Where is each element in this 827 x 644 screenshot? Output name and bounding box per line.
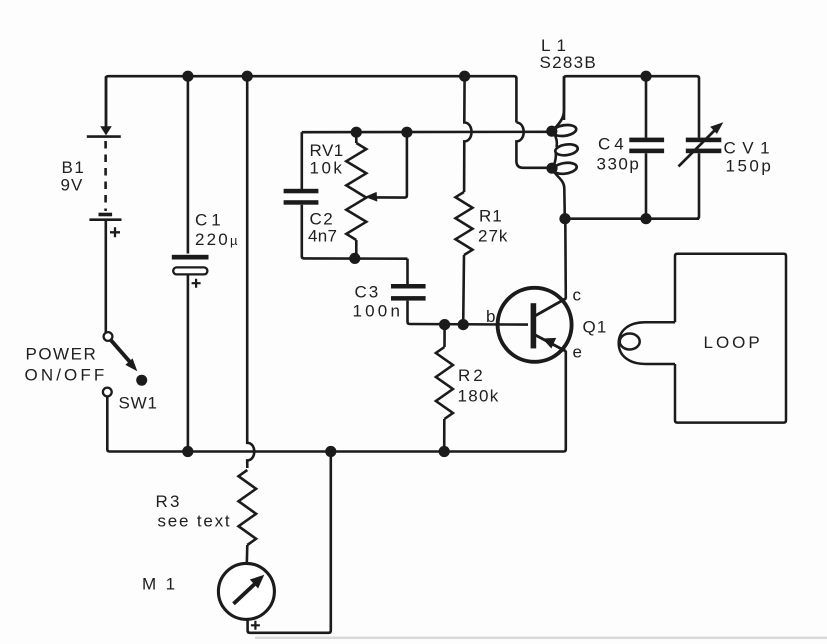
inductor L1 loop 1 — [552, 124, 577, 138]
svg-text:Q1: Q1 — [583, 318, 608, 337]
capacitor C4 bottom lead — [645, 153, 648, 219]
capacitor C2 bottom plate — [284, 200, 319, 205]
svg-text:9V: 9V — [61, 176, 84, 195]
switch SW1 upper terminal — [104, 332, 113, 341]
wire supply-to-meter vertical — [247, 76, 254, 468]
resistor R2 body — [436, 347, 453, 419]
transistor Q1 base bar — [531, 303, 537, 348]
capacitor C2 top plate — [284, 189, 319, 194]
potentiometer RV1 wiper wire — [374, 132, 407, 197]
wire meter return loop — [248, 452, 331, 633]
battery B1 plus sign — [110, 227, 120, 237]
resistor R2 bottom lead — [443, 419, 446, 452]
junction L1 top tap — [546, 126, 557, 137]
junction ground rail / C1 — [182, 446, 193, 457]
junction base wire / R1 — [458, 319, 469, 330]
svg-text:c: c — [573, 286, 582, 305]
meter M1 plus sign — [251, 621, 260, 630]
junction tap bus / wiper branch — [401, 127, 412, 138]
battery B1 top plate — [87, 135, 121, 138]
junction C2-C3 wire / RV1 bottom — [349, 253, 360, 264]
meter M1 body — [218, 563, 274, 619]
battery B1 bottom short plate — [99, 213, 113, 217]
capacitor CV1 variable arrow — [679, 131, 715, 167]
meter M1 needle arrowhead — [250, 575, 264, 589]
svg-text:CV1: CV1 — [724, 139, 777, 158]
resistor R1 top lead with hop — [464, 76, 471, 192]
junction L1 lower tap — [546, 163, 557, 174]
inductor L1 loop 3 — [553, 161, 578, 175]
wire tap bus (RV1/R1 top to L1 top tap) — [302, 131, 552, 134]
capacitor C2 bottom lead — [302, 205, 408, 259]
svg-text:C4: C4 — [598, 135, 628, 154]
resistor R1 body — [456, 192, 473, 255]
potentiometer RV1 body — [346, 143, 366, 240]
svg-text:LOOP: LOOP — [704, 333, 763, 352]
transistor Q1 collector stroke — [535, 298, 566, 316]
wire top rail right section (L1 to CV1) — [564, 76, 699, 137]
transistor Q1 emitter stroke — [535, 335, 566, 351]
resistor R3 — [239, 470, 257, 545]
wire bottom ground rail — [107, 397, 564, 452]
capacitor C3 bottom lead — [408, 301, 529, 325]
wire L1 lower tap stub — [548, 167, 556, 170]
svg-text:e: e — [573, 343, 582, 362]
junction tank bottom / C4 — [640, 213, 651, 224]
svg-text:C1: C1 — [195, 211, 225, 230]
svg-text:180k: 180k — [458, 387, 500, 406]
battery B1 top lead arrowhead — [100, 126, 112, 135]
svg-text:150p: 150p — [726, 157, 774, 176]
inductor L1 loop 2 — [555, 143, 579, 157]
inductor L1 bottom lead — [554, 172, 565, 219]
wire R3 to meter — [246, 545, 249, 564]
svg-text:R3: R3 — [156, 492, 182, 511]
capacitor CV1 bottom plate — [686, 149, 722, 154]
svg-text:10k: 10k — [310, 159, 345, 178]
junction tank bottom / collector — [559, 213, 570, 224]
svg-text:SW1: SW1 — [119, 394, 158, 413]
junction top rail / C1 — [182, 71, 193, 82]
meter M1 needle — [234, 584, 255, 604]
svg-text:100n: 100n — [353, 302, 404, 321]
capacitor C1 bottom plate (polar) — [173, 267, 207, 274]
wire rail-to-tap hop over tap wire — [516, 123, 548, 168]
wire L1 top tap stub — [548, 130, 556, 133]
resistor R2 top lead — [443, 325, 446, 347]
wire Q1 collector to tank — [564, 219, 567, 299]
junction ground rail / R2 — [439, 446, 450, 457]
junction top rail / meter branch — [242, 71, 253, 82]
inductor L1 top lead — [554, 76, 564, 129]
capacitor C1 plus sign — [192, 279, 201, 288]
junction right rail / C4 top — [640, 71, 651, 82]
junction top rail / R1 — [459, 71, 470, 82]
svg-text:RV1: RV1 — [310, 141, 344, 160]
resistor R1 bottom lead — [462, 255, 465, 325]
transistor Q1 emitter arrowhead (PNP) — [542, 338, 556, 349]
loop antenna box — [675, 254, 786, 423]
svg-text:330p: 330p — [597, 155, 641, 174]
svg-text:ON/OFF: ON/OFF — [25, 366, 108, 385]
svg-text:27k: 27k — [478, 227, 508, 246]
battery B1 bottom long plate — [89, 218, 121, 221]
inductor L1 spine 1-2 — [554, 134, 557, 148]
battery B1 bottom lead — [105, 221, 108, 332]
loop antenna coupling tab — [619, 322, 675, 364]
svg-text:4n7: 4n7 — [308, 227, 337, 246]
transistor Q1 body circle — [498, 288, 572, 362]
svg-text:M1: M1 — [142, 575, 185, 594]
svg-text:B1: B1 — [62, 158, 86, 177]
battery B1 dashed cell body — [104, 141, 107, 211]
wire tank bottom rail — [565, 217, 699, 220]
wire Q1 emitter to ground rail — [564, 351, 566, 452]
capacitor C4 top lead — [645, 76, 648, 138]
junction tap bus / RV1 top — [351, 127, 362, 138]
capacitor C1 bottom lead — [187, 275, 190, 452]
potentiometer RV1 bottom stub — [355, 240, 358, 258]
capacitor CV1 arrowhead — [710, 122, 723, 134]
svg-text:220µ: 220µ — [195, 230, 240, 249]
wire top supply rail — [106, 76, 516, 131]
junction base wire / R2 — [439, 319, 450, 330]
junction ground rail / meter return — [325, 446, 336, 457]
svg-text:POWER: POWER — [26, 345, 98, 364]
capacitor CV1 bottom lead — [697, 153, 699, 219]
capacitor C4 bottom plate — [629, 149, 664, 154]
switch SW1 contact dot — [136, 375, 147, 386]
capacitor C1 top lead — [187, 76, 190, 253]
switch SW1 lever — [111, 340, 131, 362]
svg-text:C3: C3 — [355, 283, 381, 302]
scan artifact bottom edge — [255, 637, 827, 639]
potentiometer RV1 top stub — [355, 132, 358, 143]
svg-text:R1: R1 — [479, 207, 503, 226]
capacitor C4 top plate — [629, 138, 664, 143]
battery B1 top lead — [105, 76, 108, 128]
potentiometer RV1 wiper arrowhead — [365, 192, 378, 202]
capacitor C1 top plate — [172, 255, 209, 260]
svg-text:S283B: S283B — [540, 53, 598, 72]
svg-text:see text: see text — [158, 512, 232, 531]
inductor L1 spine 2-3 — [554, 153, 556, 167]
switch SW1 lever arrowhead — [125, 358, 137, 371]
capacitor C3 top lead — [406, 259, 409, 285]
capacitor CV1 top plate — [686, 138, 722, 143]
svg-text:b: b — [486, 307, 495, 326]
capacitor C3 bottom plate — [391, 296, 426, 301]
capacitor C2 top lead — [300, 132, 303, 189]
capacitor C3 top plate — [391, 284, 426, 289]
loop antenna small loop — [620, 334, 640, 350]
svg-text:R2: R2 — [458, 366, 486, 385]
switch SW1 lower terminal — [103, 388, 112, 397]
